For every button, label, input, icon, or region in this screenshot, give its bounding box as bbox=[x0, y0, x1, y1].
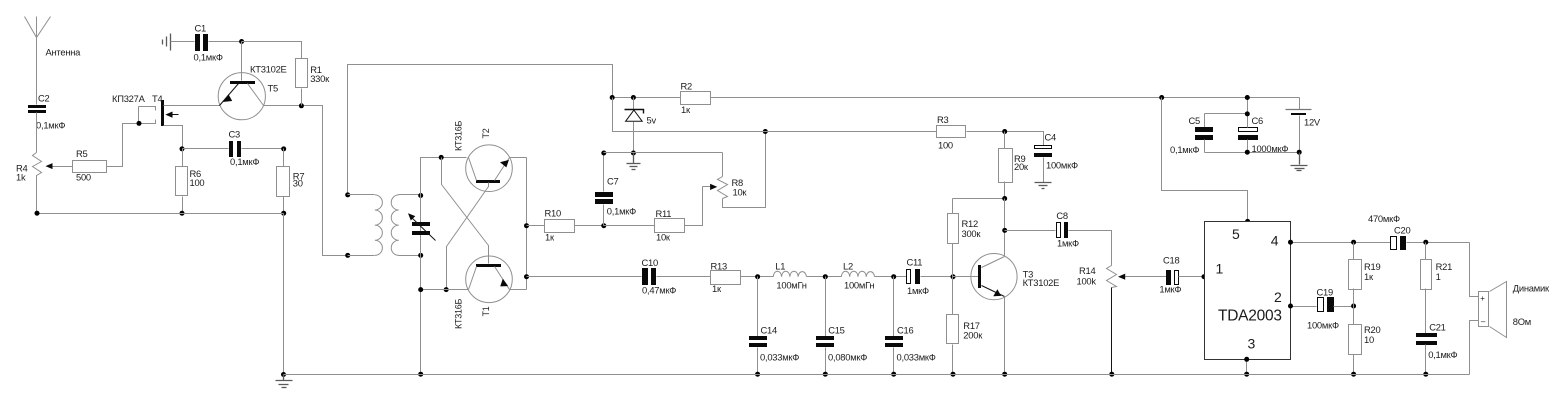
node ground link on rail bbox=[281, 372, 286, 377]
node R9 top bbox=[1002, 129, 1007, 134]
wire speaker return bbox=[1470, 321, 1479, 375]
wire pin 5 supply bbox=[1162, 98, 1248, 222]
resistor R20 bbox=[1349, 307, 1381, 375]
svg-text:0,1мкФ: 0,1мкФ bbox=[194, 52, 223, 63]
wire secondary line upper bbox=[421, 158, 467, 375]
IC U1 TDA2003 bbox=[1205, 222, 1291, 360]
node R7 bottom on left rail bbox=[281, 211, 286, 216]
inductor L2 bbox=[841, 260, 874, 290]
svg-text:200к: 200к bbox=[963, 329, 983, 340]
wire T4 drain to T5 bbox=[164, 105, 220, 107]
svg-text:С11: С11 bbox=[907, 257, 923, 268]
capacitor C5 bbox=[1170, 114, 1213, 156]
svg-text:0,47мкФ: 0,47мкФ bbox=[642, 284, 676, 295]
wire T4 source to R6/C3 node bbox=[164, 126, 183, 149]
wire C2 to R4 bbox=[36, 113, 38, 153]
capacitor C10 bbox=[642, 257, 711, 296]
svg-text:L2: L2 bbox=[843, 260, 853, 271]
wire transformer primary top to B+ rail bbox=[348, 65, 613, 195]
svg-text:Антенна: Антенна bbox=[46, 47, 82, 58]
resistor R12 bbox=[948, 199, 982, 277]
svg-text:0,1мкФ: 0,1мкФ bbox=[1428, 349, 1457, 360]
capacitor C1 bbox=[171, 23, 302, 63]
svg-text:100: 100 bbox=[190, 177, 205, 188]
node primary bottom bbox=[345, 253, 350, 258]
node C7 bottom junction bbox=[601, 223, 606, 228]
transformer secondary winding bbox=[391, 195, 420, 256]
AGC line bbox=[613, 98, 1044, 146]
wire detector line C7 to R8 bbox=[604, 152, 723, 154]
capacitor C11 bbox=[907, 257, 980, 296]
svg-text:0,1мкФ: 0,1мкФ bbox=[36, 120, 65, 131]
svg-text:300к: 300к bbox=[962, 228, 982, 239]
wire pin 3 to ground rail bbox=[1246, 360, 1248, 375]
node C3 right junction bbox=[281, 146, 286, 151]
wire T1 emitter to right rail bbox=[510, 289, 527, 291]
svg-text:C15: C15 bbox=[828, 325, 844, 336]
audio line from oscillator bbox=[527, 276, 642, 278]
resistor R10 bbox=[527, 208, 604, 243]
resistor R11 bbox=[604, 187, 703, 243]
svg-text:R13: R13 bbox=[711, 260, 727, 271]
svg-text:1мкФ: 1мкФ bbox=[907, 285, 929, 296]
svg-text:КТ316Б: КТ316Б bbox=[453, 298, 463, 329]
svg-text:0,033мкФ: 0,033мкФ bbox=[897, 351, 936, 362]
node C15 top bbox=[823, 274, 828, 279]
svg-text:C21: C21 bbox=[1429, 322, 1445, 333]
node B+ rail C6 branch bbox=[1245, 95, 1250, 100]
svg-text:R3: R3 bbox=[937, 114, 949, 125]
wire R4 to left rail bbox=[36, 179, 38, 214]
svg-text:1: 1 bbox=[1216, 261, 1224, 277]
wire T5 collector to transformer primary bottom bbox=[264, 106, 348, 256]
capacitor C4 bbox=[1034, 131, 1078, 182]
resistor R21 bbox=[1421, 243, 1453, 334]
node R8 return on AGC line bbox=[763, 129, 768, 134]
capacitor C15 bbox=[816, 277, 867, 375]
node R19 top bbox=[1351, 240, 1356, 245]
node zener top bbox=[631, 95, 636, 100]
node C1/T5 base junction bbox=[239, 39, 244, 44]
svg-text:1к: 1к bbox=[545, 232, 555, 243]
node C6 top bus bbox=[1245, 111, 1250, 116]
resistor R7 bbox=[277, 149, 305, 214]
node C7 top on detector line bbox=[601, 151, 606, 156]
svg-text:30: 30 bbox=[293, 177, 303, 188]
node lower line to ground rail bbox=[418, 372, 423, 377]
svg-text:L1: L1 bbox=[775, 260, 785, 271]
node pin 1 bbox=[1202, 274, 1207, 279]
svg-text:R14: R14 bbox=[1079, 265, 1095, 276]
ground (main, bottom left) bbox=[276, 375, 293, 388]
svg-text:С18: С18 bbox=[1163, 255, 1179, 266]
svg-text:C4: C4 bbox=[1045, 131, 1057, 142]
capacitor C20 bbox=[1368, 213, 1470, 250]
svg-text:КТ3102Е: КТ3102Е bbox=[1023, 277, 1060, 288]
ground (zener) bbox=[627, 153, 641, 170]
svg-text:1мкФ: 1мкФ bbox=[1159, 283, 1181, 294]
svg-text:0,1мкФ: 0,1мкФ bbox=[1170, 144, 1199, 155]
svg-text:Т4: Т4 bbox=[152, 93, 162, 104]
R8 wiper arrow bbox=[703, 184, 718, 190]
node C19 right / R19-R20 junction bbox=[1351, 304, 1356, 309]
node R1 bottom bbox=[299, 103, 304, 108]
node T2 collector wire / cross junction bbox=[439, 155, 444, 160]
node D2 to T1 collector wire bbox=[444, 287, 449, 292]
svg-text:8Ом: 8Ом bbox=[1513, 316, 1531, 327]
capacitor C19 bbox=[1307, 287, 1354, 331]
node B+ rail pin5 branch bbox=[1159, 95, 1164, 100]
svg-text:КП327А: КП327А bbox=[112, 93, 146, 104]
node T3 collector top bbox=[1002, 196, 1007, 201]
capacitor C7 bbox=[595, 153, 636, 226]
ground (battery) bbox=[1291, 153, 1308, 171]
bottom ground rail bbox=[284, 374, 1470, 376]
svg-text:C2: C2 bbox=[38, 93, 50, 104]
svg-text:1мкФ: 1мкФ bbox=[1057, 238, 1079, 249]
svg-text:100: 100 bbox=[938, 140, 953, 151]
node T1 collector on lower line bbox=[418, 287, 423, 292]
svg-text:10: 10 bbox=[1364, 334, 1374, 345]
R14 wiper arrow from C18 bbox=[1118, 274, 1167, 280]
svg-text:Т2: Т2 bbox=[481, 128, 491, 138]
transistor T4 (dual-gate MOSFET КП327А) bbox=[112, 93, 179, 126]
left bottom rail bbox=[37, 213, 284, 215]
svg-text:R10: R10 bbox=[545, 208, 561, 219]
node pin 2 bbox=[1288, 304, 1293, 309]
svg-text:0,080мкФ: 0,080мкФ bbox=[828, 351, 867, 362]
svg-text:100мГн: 100мГн bbox=[776, 279, 806, 290]
wire R9 bottom / T3 collector node to R12 bbox=[953, 198, 1005, 200]
transistor T5 (КТ3102Е) bbox=[218, 42, 286, 120]
resistor R2 bbox=[681, 81, 711, 116]
capacitor C2 bbox=[28, 93, 65, 131]
svg-text:5v: 5v bbox=[647, 114, 657, 125]
wire cross D2 (T2 base to T1 collector node) bbox=[447, 183, 489, 290]
wire pin 2 feedback bbox=[1291, 306, 1317, 308]
resistor R1 bbox=[242, 42, 331, 106]
svg-text:100мкФ: 100мкФ bbox=[1046, 159, 1078, 170]
svg-text:1k: 1k bbox=[16, 172, 26, 183]
svg-text:C8: C8 bbox=[1056, 210, 1068, 221]
svg-text:Т5: Т5 bbox=[268, 83, 278, 94]
svg-text:R2: R2 bbox=[681, 81, 693, 92]
svg-text:1к: 1к bbox=[1364, 271, 1374, 282]
svg-text:0,1мкФ: 0,1мкФ bbox=[230, 156, 259, 167]
ground (C1 left, rotated) bbox=[163, 34, 171, 51]
node pin 4 bbox=[1288, 240, 1293, 245]
potentiometer R14 bbox=[1077, 265, 1117, 375]
node C21 bottom bbox=[1423, 372, 1428, 377]
inductor L1 bbox=[773, 260, 806, 290]
resistor R5 bbox=[73, 148, 107, 182]
node C8 branch bbox=[1002, 228, 1007, 233]
wire T3 collector bbox=[1004, 199, 1006, 257]
node B+ / AGC branch bbox=[610, 95, 615, 100]
svg-text:C14: C14 bbox=[761, 325, 777, 336]
svg-text:4: 4 bbox=[1271, 233, 1279, 249]
wire C5 top bus bbox=[1205, 113, 1248, 115]
node primary top bbox=[345, 192, 350, 197]
bottom bus C5/C6/battery bbox=[1205, 152, 1300, 154]
svg-text:20к: 20к bbox=[1014, 161, 1029, 172]
svg-text:C10: C10 bbox=[642, 257, 658, 268]
transistor T1 (КТ316Б) bbox=[453, 256, 512, 329]
svg-text:TDA2003: TDA2003 bbox=[1218, 308, 1282, 325]
capacitor C3 bbox=[183, 129, 284, 168]
svg-text:Динамик: Динамик bbox=[1513, 283, 1550, 294]
capacitor C14 bbox=[749, 277, 799, 375]
node R21 top bbox=[1423, 240, 1428, 245]
svg-text:C1: C1 bbox=[195, 23, 207, 34]
wire T1 collector to secondary lower line bbox=[421, 289, 469, 291]
svg-text:10к: 10к bbox=[656, 231, 671, 242]
R4 wiper arrow from R5 bbox=[46, 163, 73, 169]
wire T2 emitter to right rail bbox=[510, 157, 527, 159]
resistor R17 bbox=[947, 277, 984, 375]
svg-text:C19: C19 bbox=[1317, 287, 1333, 298]
speaker (Динамик 8Ом) bbox=[1479, 282, 1550, 338]
node R6 bottom on left rail bbox=[180, 211, 185, 216]
node C14 top bbox=[755, 274, 760, 279]
potentiometer R4 bbox=[16, 153, 42, 183]
node R14 bottom bbox=[1109, 372, 1114, 377]
svg-text:1к: 1к bbox=[712, 283, 722, 294]
resistor R13 bbox=[711, 260, 774, 294]
zener diode 5v bbox=[625, 98, 657, 153]
wire speaker feed bbox=[1470, 243, 1479, 297]
node T3 emitter bottom bbox=[1002, 372, 1007, 377]
node R17 bottom bbox=[951, 372, 956, 377]
resistor R9 bbox=[999, 132, 1029, 199]
capacitor C21 bbox=[1416, 322, 1458, 375]
wire L2 to C11 bbox=[875, 276, 907, 278]
svg-text:330к: 330к bbox=[310, 73, 330, 84]
wire cross D1 (T2 collector node to T1 base) bbox=[442, 158, 489, 264]
svg-text:100мГн: 100мГн bbox=[844, 279, 874, 290]
node T4 source junction bbox=[180, 146, 185, 151]
transformer primary winding bbox=[348, 195, 383, 256]
node C16 top bbox=[891, 274, 896, 279]
node R4 bottom on left rail bbox=[35, 211, 40, 216]
node C16 bottom bbox=[891, 372, 896, 377]
svg-text:C20: C20 bbox=[1394, 225, 1410, 236]
svg-text:470мкФ: 470мкФ bbox=[1368, 213, 1400, 224]
resistor R19 bbox=[1349, 243, 1381, 307]
wire T3 emitter to ground rail bbox=[1004, 297, 1006, 375]
capacitor C18 bbox=[1159, 255, 1204, 295]
variable capacitor (tuning) bbox=[408, 213, 436, 240]
svg-text:C5: C5 bbox=[1189, 115, 1201, 126]
capacitor C8 bbox=[1005, 210, 1112, 265]
svg-text:1: 1 bbox=[1436, 271, 1441, 282]
wire pin 4 output bbox=[1291, 242, 1391, 244]
svg-text:0,1мкФ: 0,1мкФ bbox=[607, 206, 636, 217]
node C6 bottom bbox=[1245, 150, 1250, 155]
node C14 bottom bbox=[755, 372, 760, 377]
wire oscillator right rail bbox=[526, 158, 528, 290]
wire C6 top to B+ rail bbox=[1247, 98, 1249, 128]
node pin 3 rail bbox=[1244, 372, 1249, 377]
ground (C4) bbox=[1035, 183, 1052, 189]
node battery bottom bbox=[1297, 150, 1302, 155]
capacitor C6 bbox=[1238, 115, 1288, 154]
svg-text:100k: 100k bbox=[1077, 276, 1097, 287]
svg-text:5: 5 bbox=[1232, 226, 1240, 242]
svg-text:С7: С7 bbox=[607, 176, 619, 187]
potentiometer R8 bbox=[718, 132, 766, 208]
svg-text:C3: C3 bbox=[229, 129, 241, 140]
svg-text:R11: R11 bbox=[656, 208, 672, 219]
svg-text:C6: C6 bbox=[1252, 115, 1264, 126]
svg-text:3: 3 bbox=[1248, 336, 1256, 352]
transistor T2 (КТ316Б) bbox=[454, 120, 513, 191]
B+ top rail bbox=[613, 97, 1300, 99]
node pin 5 bbox=[1245, 219, 1250, 224]
node R12/R17 junction on audio line bbox=[951, 274, 956, 279]
svg-text:+: + bbox=[1480, 294, 1485, 303]
battery 12V bbox=[1286, 98, 1321, 153]
wire R5 to T4 gates bbox=[107, 124, 139, 167]
node secondary bottom bbox=[418, 253, 423, 258]
svg-text:Т1: Т1 bbox=[481, 306, 491, 316]
node secondary top bbox=[418, 193, 423, 198]
transistor T3 (КТ3102Е) bbox=[953, 254, 1060, 300]
resistor R6 bbox=[176, 149, 205, 214]
svg-text:КТ3102Е: КТ3102Е bbox=[250, 64, 287, 75]
svg-text:R5: R5 bbox=[76, 148, 88, 159]
svg-text:2: 2 bbox=[1274, 289, 1282, 305]
antenna bbox=[25, 17, 82, 105]
wire L1 to L2 bbox=[807, 276, 842, 278]
svg-text:12V: 12V bbox=[1304, 116, 1321, 127]
svg-text:КТ316Б: КТ316Б bbox=[454, 120, 464, 151]
node R10 tap bbox=[524, 223, 529, 228]
resistor R3 bbox=[937, 114, 966, 151]
svg-text:0,033мкФ: 0,033мкФ bbox=[760, 351, 799, 362]
svg-text:100мкФ: 100мкФ bbox=[1307, 320, 1339, 331]
svg-text:10к: 10к bbox=[733, 187, 748, 198]
node R20 bottom bbox=[1351, 372, 1356, 377]
svg-text:C16: C16 bbox=[897, 325, 913, 336]
svg-text:1к: 1к bbox=[681, 104, 691, 115]
wire left rail down to main ground rail bbox=[283, 214, 285, 375]
node zener bottom on detector line bbox=[631, 151, 636, 156]
node pin 3 bbox=[1244, 357, 1249, 362]
svg-text:500: 500 bbox=[76, 172, 91, 183]
node C15 bottom bbox=[823, 372, 828, 377]
capacitor C16 bbox=[885, 277, 936, 375]
node audio output tap bbox=[524, 274, 529, 279]
